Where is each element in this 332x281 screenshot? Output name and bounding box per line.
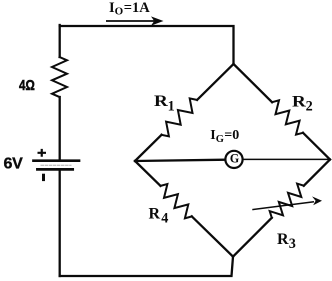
svg-text:4Ω: 4Ω bbox=[19, 78, 35, 94]
svg-text:R: R bbox=[149, 205, 161, 222]
svg-text:1: 1 bbox=[168, 98, 175, 114]
svg-text:IO=1A: IO=1A bbox=[109, 0, 150, 18]
svg-text:3: 3 bbox=[289, 236, 296, 252]
svg-text:IG=0: IG=0 bbox=[210, 128, 239, 145]
svg-text:R: R bbox=[277, 231, 289, 248]
svg-text:2: 2 bbox=[306, 99, 313, 115]
svg-text:G: G bbox=[230, 151, 239, 166]
svg-text:R: R bbox=[154, 93, 168, 110]
svg-text:4: 4 bbox=[161, 210, 168, 226]
svg-text:6V: 6V bbox=[4, 156, 24, 173]
svg-text:R: R bbox=[292, 93, 306, 110]
